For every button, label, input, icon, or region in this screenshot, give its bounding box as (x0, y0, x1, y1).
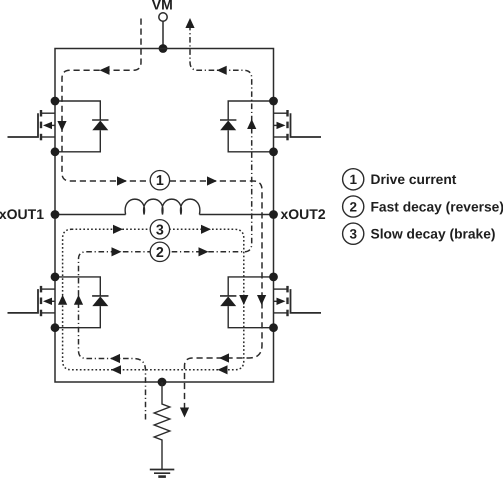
node Q2 source (269, 147, 278, 156)
svg-text:1: 1 (349, 172, 357, 187)
legend item 1 (343, 169, 457, 190)
legend item 3 (343, 223, 496, 244)
path 2 arrow (mid left, right) (112, 247, 122, 256)
wire H-bridge outline (supply rail, side rails, ground rail) (55, 49, 274, 383)
svg-text:Slow decay (brake): Slow decay (brake) (371, 227, 496, 242)
svg-text:xOUT1: xOUT1 (0, 206, 44, 222)
svg-text:VM: VM (152, 0, 173, 13)
path 3 arrow (bottom right, left) (218, 365, 228, 374)
inductor motor winding (125, 199, 200, 214)
node path 2 label circle (150, 242, 169, 261)
path 3 arrow (through Q4 side, down) (239, 295, 248, 305)
path 2 arrow (top, leftward) (217, 66, 227, 75)
svg-text:Fast decay (reverse): Fast decay (reverse) (371, 199, 503, 214)
path 1 arrow (mid left, right) (117, 176, 127, 185)
wire inductor to xOUT2 (199, 214, 273, 216)
diode D1 (body diode) (55, 101, 109, 152)
path 2 arrow (mid right, right) (199, 247, 209, 256)
transistor Q1 (high-side left) (8, 110, 56, 140)
resistor Rsense (154, 382, 170, 470)
transistor Q3 (low-side left) (8, 286, 56, 316)
path 3 arrow (top right, right) (201, 225, 211, 234)
wire current path 3 slow decay (dotted loop) (63, 229, 244, 369)
node ground-rail junction (158, 378, 167, 387)
legend item 2 (343, 196, 503, 217)
node Q1 drain (51, 97, 60, 106)
path 2 arrow (exit to VM, up) (185, 18, 194, 28)
path 1 arrow (top, leftward) (100, 66, 110, 75)
node Q3 source (51, 323, 60, 332)
node Q4 drain (269, 273, 278, 282)
ground (150, 470, 175, 477)
path 3 arrow (through Q3 side, up) (58, 295, 67, 305)
path 3 arrow (bottom left, left) (111, 365, 121, 374)
diode D2 (body diode) (220, 101, 274, 152)
path 3 arrow (top left, right) (113, 225, 123, 234)
node Q4 source (269, 323, 278, 332)
svg-text:Drive current: Drive current (371, 172, 457, 187)
path 2 arrow (bottom, leftward) (110, 354, 120, 363)
node Q1 source (51, 147, 60, 156)
VM terminal (159, 13, 167, 21)
node Q2 drain (269, 97, 278, 106)
path 1 arrow (bottom, leftward) (219, 353, 229, 362)
path 2 arrow (through D2, up) (247, 119, 256, 129)
path 1 arrow (through Q4, down) (257, 295, 266, 305)
svg-text:1: 1 (156, 173, 164, 189)
node path 1 label circle (150, 171, 169, 190)
node xOUT2 (269, 210, 278, 219)
node xOUT1 (51, 210, 60, 219)
node Q3 drain (51, 273, 60, 282)
svg-text:3: 3 (156, 222, 164, 238)
svg-text:3: 3 (349, 227, 357, 242)
path 1 arrow (into Q1, down) (57, 121, 66, 131)
node VM junction (159, 44, 168, 53)
svg-text:2: 2 (156, 245, 164, 261)
svg-text:2: 2 (349, 199, 357, 214)
wire xOUT1 to inductor (55, 214, 126, 216)
wire current path 1 drive current (dashed loop) (62, 19, 262, 411)
path 1 arrow (mid right, right) (207, 176, 217, 185)
wire current path 2 fast decay (dash-dot loop) (79, 28, 252, 420)
wire VM stem (162, 21, 164, 48)
transistor Q2 (high-side right) (274, 110, 322, 140)
transistor Q4 (low-side right) (274, 286, 322, 316)
path 1 arrow (to Rsense, down) (180, 408, 189, 418)
svg-text:xOUT2: xOUT2 (281, 206, 326, 222)
node path 3 label circle (150, 220, 169, 239)
diode D3 (body diode) (55, 277, 109, 328)
path 2 arrow (through D3, up) (74, 295, 83, 305)
diode D4 (body diode) (220, 277, 274, 328)
